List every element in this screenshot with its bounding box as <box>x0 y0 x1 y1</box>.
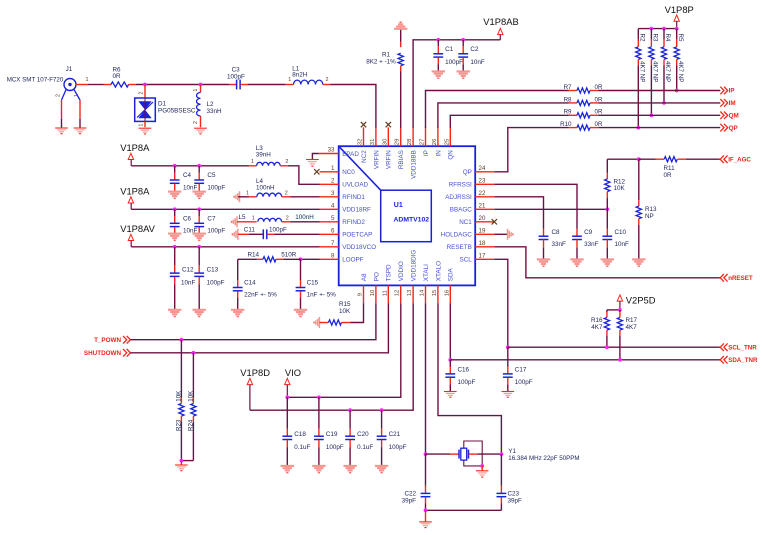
svg-text:10K: 10K <box>614 185 626 192</box>
ground (C1) <box>432 70 445 72</box>
wire R2 to row <box>637 66 639 128</box>
svg-text:C2: C2 <box>470 46 479 53</box>
wire pin 14 XTALI down <box>425 303 427 454</box>
capacitor C8 33nF <box>543 229 545 237</box>
junction R2 bottom <box>636 126 640 130</box>
svg-text:C8: C8 <box>552 229 561 236</box>
svg-text:16: 16 <box>444 289 450 296</box>
ground (C17) <box>502 391 515 393</box>
svg-text:NP: NP <box>645 213 654 220</box>
ground (C4) <box>168 191 181 193</box>
svg-text:100pF: 100pF <box>389 444 407 451</box>
svg-text:D1: D1 <box>158 100 167 107</box>
svg-text:1: 1 <box>193 89 199 92</box>
svg-text:V2P5D: V2P5D <box>626 295 656 306</box>
ground (R23/R24) <box>175 464 188 466</box>
svg-text:C1: C1 <box>445 46 454 53</box>
wire crystal case bottom <box>464 460 482 466</box>
no-connect X pin 30 <box>386 122 391 127</box>
svg-text:5: 5 <box>331 215 335 222</box>
pin 13 VDD18DIG <box>412 285 414 303</box>
svg-text:nRESET: nRESET <box>728 275 753 282</box>
inductor L3 39nH <box>249 165 257 167</box>
wire R7 to off-page IP <box>599 90 721 92</box>
svg-text:1: 1 <box>331 165 335 172</box>
ground (C19) <box>312 465 325 467</box>
pin 4 VDD18RF <box>320 208 339 210</box>
svg-text:R7: R7 <box>564 84 572 91</box>
junction LOOPF-C15 <box>299 257 303 261</box>
pin 21 BBAGC <box>475 208 494 210</box>
wire R11 to off-page IF_AGC <box>686 158 720 160</box>
capacitor C19 100pF <box>318 397 320 429</box>
svg-text:VDD18VCO: VDD18VCO <box>342 244 376 251</box>
inductor L2 33nH <box>200 85 202 93</box>
pin 1 stub J1 <box>76 84 88 86</box>
svg-text:100pF: 100pF <box>207 280 225 287</box>
no-connect X pin 20 <box>492 219 497 224</box>
ground (C18) <box>281 465 294 467</box>
svg-text:IM: IM <box>729 100 736 107</box>
svg-text:VRFIN: VRFIN <box>373 150 380 169</box>
svg-text:C21: C21 <box>389 431 401 438</box>
svg-text:16.384 MHz 22pF 50PPM: 16.384 MHz 22pF 50PPM <box>508 455 579 462</box>
resistor R6 <box>104 84 112 86</box>
svg-text:MCX SMT 107-F720: MCX SMT 107-F720 <box>7 77 64 84</box>
svg-text:LOOPF: LOOPF <box>342 257 363 264</box>
svg-text:100pF: 100pF <box>458 379 476 386</box>
junction XTALO-crystal <box>500 452 504 456</box>
svg-text:C20: C20 <box>357 431 369 438</box>
svg-text:C18: C18 <box>294 431 306 438</box>
svg-text:R5: R5 <box>677 34 684 42</box>
svg-text:QN: QN <box>448 150 455 160</box>
svg-text:8n2H: 8n2H <box>292 72 308 79</box>
ground (L4, sideways) <box>239 191 241 202</box>
resistor R7 0R <box>569 90 578 92</box>
pin 7 VDD18VCO <box>320 246 339 248</box>
svg-text:VRFIN: VRFIN <box>386 150 393 169</box>
svg-text:0.1uF: 0.1uF <box>294 444 310 451</box>
svg-text:2: 2 <box>193 121 199 124</box>
junction C5 <box>197 164 201 168</box>
junction C2 <box>461 38 465 42</box>
svg-text:32: 32 <box>358 139 364 146</box>
wire C11 to pin 6 POETCAP <box>275 233 320 235</box>
no-connect X pin 32 <box>361 122 366 127</box>
svg-text:1: 1 <box>252 215 255 221</box>
off-page connector QM <box>720 112 724 120</box>
svg-text:2: 2 <box>286 215 289 221</box>
svg-text:13: 13 <box>407 289 413 296</box>
svg-text:R24: R24 <box>187 419 194 431</box>
wire T_POWN to pin 10 PO <box>130 303 376 339</box>
pin 32 NC2 <box>363 127 365 146</box>
svg-text:8K2 + -1%: 8K2 + -1% <box>366 58 396 65</box>
svg-text:4K7: 4K7 <box>591 324 603 331</box>
capacitor C18 0.1uF <box>286 397 288 429</box>
svg-text:11: 11 <box>382 290 388 296</box>
wire R5 to row <box>676 66 678 91</box>
ground (R1 top, flipped) <box>394 28 407 30</box>
junction R4 bottom <box>662 101 666 105</box>
svg-text:1: 1 <box>246 191 249 197</box>
off-page connector IP <box>720 87 724 95</box>
ground (C12) <box>168 309 181 311</box>
junction C12 <box>173 245 177 249</box>
svg-text:PO: PO <box>373 272 380 281</box>
svg-text:29: 29 <box>395 139 401 146</box>
junction R5 top <box>675 27 679 31</box>
svg-text:C7: C7 <box>207 215 216 222</box>
svg-text:J1: J1 <box>66 66 73 73</box>
junction C18 <box>285 395 289 399</box>
capacitor C5 100pF <box>198 166 200 173</box>
junction at D1 <box>143 83 147 87</box>
svg-text:1nF +- 5%: 1nF +- 5% <box>307 291 337 298</box>
svg-text:3: 3 <box>331 190 335 197</box>
resistor R11 0R <box>656 158 665 160</box>
svg-text:R23: R23 <box>175 419 182 431</box>
svg-text:6: 6 <box>331 227 335 234</box>
off-page connector IF_AGC <box>720 155 724 163</box>
svg-text:SDA_TNR: SDA_TNR <box>728 357 758 364</box>
resistor R8 0R <box>569 102 578 104</box>
pin 22 ADJRSSI <box>475 196 494 198</box>
off-page connector SCL_TNR <box>720 343 724 351</box>
pin 5 RFIND2 <box>320 221 339 223</box>
svg-text:R2: R2 <box>639 34 646 42</box>
wire pin 28 VDD18BB to V1P8AB <box>413 40 500 128</box>
wire L4 to pin 3 RFIND1 <box>291 196 320 198</box>
wire L5 to pin 5 RFIND2 <box>291 221 320 223</box>
svg-text:4K7 NP: 4K7 NP <box>664 61 671 82</box>
svg-text:IN: IN <box>435 150 442 157</box>
junction R13 top <box>637 157 641 161</box>
off-page connector nRESET <box>720 274 724 282</box>
svg-text:C6: C6 <box>183 215 192 222</box>
svg-text:VDD18DIG: VDD18DIG <box>411 250 418 282</box>
svg-text:C19: C19 <box>326 431 338 438</box>
svg-text:33nF: 33nF <box>584 241 599 248</box>
svg-text:C9: C9 <box>584 229 593 236</box>
pin 20 NC1 <box>475 221 494 223</box>
wire pin 8 LOOPF <box>301 258 320 260</box>
junction C21 <box>380 408 384 412</box>
wire pin 15 XTALO jog <box>438 303 501 454</box>
svg-text:QM: QM <box>729 113 739 120</box>
junction C22 ground <box>424 508 428 512</box>
ground (EPAD) <box>306 159 319 161</box>
junction C1 <box>436 38 440 42</box>
wire R9 to off-page QM <box>599 114 721 116</box>
svg-text:100pF: 100pF <box>269 227 287 234</box>
inductor L4 100nH <box>238 196 249 198</box>
ground (C16) <box>444 391 457 393</box>
svg-text:V1P8A: V1P8A <box>120 186 150 197</box>
svg-text:22: 22 <box>479 190 486 197</box>
pin 31 VRFIN <box>375 127 377 146</box>
svg-text:NC1: NC1 <box>459 219 472 226</box>
svg-text:25: 25 <box>444 138 450 145</box>
svg-text:RESETB: RESETB <box>447 244 472 251</box>
pin 1 NC0 <box>320 171 339 173</box>
pin 28 VDD18BB <box>412 127 414 146</box>
wire ground stub C22 <box>425 510 427 521</box>
svg-text:1: 1 <box>86 77 89 83</box>
wire R3 to row <box>650 66 652 116</box>
ground (C20) <box>343 465 356 467</box>
ground (L2) <box>194 127 207 129</box>
svg-text:26: 26 <box>432 138 438 145</box>
wire R15 to pin 9 A8 <box>351 303 364 322</box>
power flag V2P5D <box>617 295 622 301</box>
ground (J1 pin b) <box>74 127 87 129</box>
pin 11 TSPD <box>387 285 389 303</box>
junction SDA-C16 <box>448 358 452 362</box>
capacitor C2 10nF <box>462 40 464 46</box>
svg-text:18: 18 <box>479 240 486 247</box>
wire pin 18 RESETB to nRESET <box>494 247 720 278</box>
capacitor C15 1nF <box>300 259 302 280</box>
svg-text:39pF: 39pF <box>508 498 523 505</box>
svg-text:0.1uF: 0.1uF <box>357 444 373 451</box>
capacitor C10 10nF <box>606 209 608 228</box>
svg-text:R3: R3 <box>652 34 659 42</box>
svg-text:15: 15 <box>432 289 438 296</box>
svg-text:17: 17 <box>479 252 486 259</box>
svg-text:VIO: VIO <box>285 367 301 378</box>
svg-text:1: 1 <box>74 94 80 97</box>
svg-text:100nH: 100nH <box>295 214 314 221</box>
pin 26 IN <box>437 127 439 146</box>
svg-text:QP: QP <box>729 125 738 132</box>
svg-text:10nF: 10nF <box>615 241 630 248</box>
capacitor C23 39pF <box>500 454 502 486</box>
ground (J1 pin a) <box>55 127 68 129</box>
svg-text:EPAD: EPAD <box>342 151 359 158</box>
wire pin 19 HOLDAGC to ground <box>494 233 500 235</box>
svg-text:U1: U1 <box>394 202 403 209</box>
ground (C8) <box>537 258 550 260</box>
svg-text:C5: C5 <box>207 172 216 179</box>
pin 2 UVLOAD <box>320 183 339 185</box>
junction C19 <box>317 395 321 399</box>
svg-text:1: 1 <box>288 77 291 83</box>
junction SCL-C17 <box>506 345 510 349</box>
pin 29 RBIAS <box>400 127 402 146</box>
svg-text:SDA: SDA <box>448 267 455 281</box>
resistor R4 4K7 NP <box>663 29 665 40</box>
svg-text:8: 8 <box>331 252 335 259</box>
junction R23 ground <box>180 459 184 463</box>
svg-text:ADMTV102: ADMTV102 <box>394 217 430 224</box>
svg-text:14: 14 <box>420 289 426 296</box>
ground (C11, sideways) <box>237 229 239 240</box>
pin 23 RFRSSI <box>475 183 494 185</box>
svg-text:24: 24 <box>479 165 486 172</box>
svg-text:UVLOAD: UVLOAD <box>342 182 368 189</box>
svg-text:4K7: 4K7 <box>626 324 638 331</box>
capacitor C12 10nF <box>174 247 176 266</box>
svg-text:TSPD: TSPD <box>386 264 393 281</box>
wire pin 26 to row IM <box>438 103 569 128</box>
svg-text:31: 31 <box>370 139 376 146</box>
capacitor C7 100pF <box>198 209 200 216</box>
svg-text:4K7 NP: 4K7 NP <box>652 61 659 82</box>
svg-text:SCL_TNR: SCL_TNR <box>728 344 757 351</box>
capacitor C16 100pF <box>449 360 451 367</box>
svg-text:V1P8A: V1P8A <box>120 142 150 153</box>
svg-text:100pF: 100pF <box>207 184 225 191</box>
svg-text:10K: 10K <box>175 390 182 402</box>
pin 8 LOOPF <box>320 258 339 260</box>
svg-text:7: 7 <box>331 240 335 247</box>
svg-text:19: 19 <box>479 227 486 234</box>
capacitor C13 100pF <box>198 247 200 266</box>
svg-text:10: 10 <box>370 289 376 296</box>
svg-text:R8: R8 <box>564 96 572 103</box>
svg-text:4K7 NP: 4K7 NP <box>639 61 646 82</box>
wire V1P8A bus 1 <box>131 165 249 167</box>
off-page connector SDA_TNR <box>720 356 724 364</box>
wire pin 21 BBAGC to R12/C10 <box>494 208 607 210</box>
svg-text:28: 28 <box>407 138 413 145</box>
ground (C21) <box>375 465 388 467</box>
svg-text:POETCAP: POETCAP <box>342 232 372 239</box>
wire pin 27 to row IP <box>426 91 569 129</box>
capacitor C6 10nF <box>174 209 176 216</box>
pin 25 QN <box>449 127 451 146</box>
svg-text:22nF +- 5%: 22nF +- 5% <box>244 291 277 298</box>
pin 18 RESETB <box>475 246 494 248</box>
pin 12 VDDIO <box>400 285 402 303</box>
svg-text:100nH: 100nH <box>256 185 275 192</box>
wire pin 23 RFRSSI to C9 <box>494 184 577 228</box>
svg-text:V1P8AV: V1P8AV <box>120 223 155 234</box>
resistor R13 NP <box>638 159 640 200</box>
svg-text:C13: C13 <box>207 266 219 273</box>
power flag V1P8A (2) <box>128 197 133 203</box>
svg-text:NC2: NC2 <box>361 150 368 163</box>
svg-text:R4: R4 <box>664 34 671 42</box>
ground (HOLDAGC, sideways) <box>507 229 509 240</box>
svg-text:L5: L5 <box>239 214 247 221</box>
svg-text:IF_AGC: IF_AGC <box>728 156 751 163</box>
capacitor C4 10nF <box>174 166 176 173</box>
svg-text:2: 2 <box>285 159 288 165</box>
ground (C14) <box>231 309 244 311</box>
svg-text:Y1: Y1 <box>508 448 516 455</box>
resistor R9 0R <box>569 114 578 116</box>
svg-text:2: 2 <box>285 191 288 197</box>
svg-text:10K: 10K <box>339 308 351 315</box>
svg-text:33nF: 33nF <box>552 241 567 248</box>
wire L1 to pin 31 VRFIN <box>331 85 376 129</box>
resistor R16 4K7 <box>606 310 608 312</box>
svg-text:10nF: 10nF <box>470 59 485 66</box>
junction R17-SDA_TNR <box>618 358 622 362</box>
junction R3 bottom <box>650 113 654 117</box>
capacitor C22 39pF <box>425 454 427 486</box>
pin 10 PO <box>375 285 377 303</box>
wire crystal case top <box>464 441 482 466</box>
junction crystal case <box>480 464 484 468</box>
svg-text:VDD18RF: VDD18RF <box>342 207 371 214</box>
diode D1 PG05BSESC <box>144 85 146 99</box>
svg-text:C15: C15 <box>307 279 319 286</box>
svg-text:39pF: 39pF <box>402 498 417 505</box>
wire R10 to off-page QP <box>599 127 721 129</box>
svg-text:VDDIO: VDDIO <box>398 261 405 281</box>
off-page connector QP <box>720 124 724 132</box>
pin 30 VRFIN <box>387 127 389 146</box>
svg-text:RBIAS: RBIAS <box>398 150 405 169</box>
wire pin 17 SCL jog <box>494 259 507 347</box>
svg-text:20: 20 <box>479 215 486 222</box>
capacitor C17 100pF <box>507 347 509 366</box>
junction C6 <box>173 207 177 211</box>
pin 17 SCL <box>475 258 494 260</box>
pin 24 QP <box>475 171 494 173</box>
wire VIO bus to pin 12 VDDIO <box>287 303 401 397</box>
capacitor C11 100pF <box>238 233 249 235</box>
junction BBAGC-R12-C10 <box>605 207 609 211</box>
inductor L5 100nH <box>237 221 257 223</box>
resistor R12 10K <box>606 159 608 173</box>
svg-text:R14: R14 <box>247 252 259 259</box>
wire SCL_TNR row <box>508 346 720 348</box>
pin 6 POETCAP <box>320 233 339 235</box>
junction R3 top <box>650 27 654 31</box>
svg-text:510R: 510R <box>281 252 297 259</box>
svg-text:12: 12 <box>395 290 401 297</box>
resistor R1 8K2 <box>400 30 402 42</box>
capacitor C20 0.1uF <box>349 410 351 429</box>
wire pin 22 ADJRSSI to C8 <box>494 197 543 229</box>
svg-text:9: 9 <box>358 293 364 296</box>
capacitor C3 100pF <box>230 84 237 86</box>
svg-text:XTALO: XTALO <box>435 261 442 281</box>
resistor R23 10K <box>180 340 182 398</box>
power flag V1P8A (1) <box>128 153 133 159</box>
resistor R24 10K <box>192 353 194 398</box>
ground (D1) <box>139 127 152 129</box>
svg-text:2: 2 <box>55 94 61 97</box>
wire pin 24 QP jog <box>494 128 568 172</box>
svg-text:1: 1 <box>139 124 145 127</box>
resistor R5 4K7 NP <box>676 29 678 40</box>
svg-text:100pF: 100pF <box>445 59 463 66</box>
wire C3 to L1 <box>248 84 286 86</box>
junction R17 top <box>618 308 622 312</box>
svg-text:IP: IP <box>729 88 735 95</box>
svg-text:4K7 NP: 4K7 NP <box>677 61 684 82</box>
svg-text:QP: QP <box>463 169 472 176</box>
power flag V1P8P <box>674 15 679 21</box>
svg-text:HOLDAGC: HOLDAGC <box>441 232 473 239</box>
wire V1P8D bus to pin 13 VDD18DIG <box>250 303 413 410</box>
junction R24 <box>192 351 196 355</box>
wire SHUTDOWN to pin 11 TSPD <box>130 303 388 353</box>
capacitor C9 33nF <box>576 229 578 237</box>
inductor L1 8n2H <box>286 84 294 86</box>
svg-text:C16: C16 <box>458 366 470 373</box>
svg-text:VDD18BB: VDD18BB <box>411 150 418 179</box>
ground (C9) <box>570 258 583 260</box>
ground (R13) <box>632 258 645 260</box>
svg-text:0R: 0R <box>664 172 673 179</box>
